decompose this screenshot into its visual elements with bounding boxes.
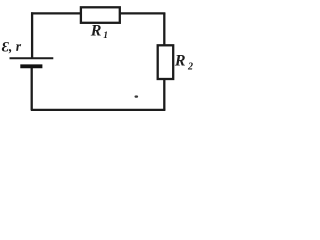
svg-text:2: 2 [187, 62, 193, 73]
resistor R1 (box) [81, 7, 120, 22]
resistor R2 (box) [158, 45, 174, 79]
battery cell: long thin plate [10, 57, 54, 59]
wire top [31, 12, 165, 14]
wire right [163, 13, 165, 110]
svg-text:1: 1 [103, 31, 108, 41]
svg-text:R: R [174, 52, 186, 69]
svg-text:R: R [90, 23, 102, 40]
wire left lower [31, 67, 33, 111]
wire left upper [31, 12, 33, 58]
speck (print dust) [135, 95, 139, 97]
battery cell: short thick plate [20, 64, 42, 68]
svg-text:Ɛ, r: Ɛ, r [1, 40, 22, 56]
wire bottom [31, 109, 165, 111]
